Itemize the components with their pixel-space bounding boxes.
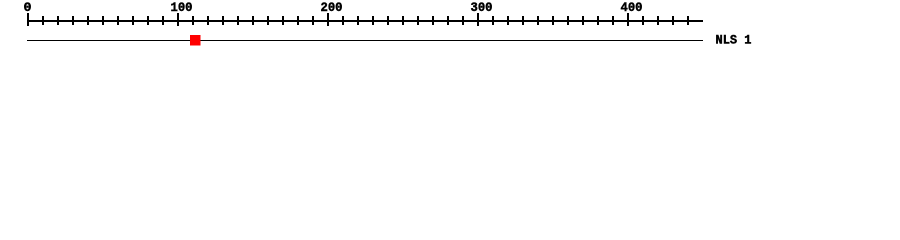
ruler minor tick at 60 (117, 16, 119, 25)
ruler minor tick at 130 (222, 16, 224, 25)
ruler major tick at 100 (177, 13, 179, 26)
ruler minor tick at 170 (282, 16, 284, 25)
ruler minor tick at 270 (432, 16, 434, 25)
ruler minor tick at 370 (582, 16, 584, 25)
ruler minor tick at 430 (672, 16, 674, 25)
ruler minor tick at 290 (462, 16, 464, 25)
svg-text:200: 200 (321, 0, 343, 15)
ruler minor tick at 160 (267, 16, 269, 25)
svg-text:NLS 1: NLS 1 (716, 32, 752, 47)
ruler minor tick at 310 (492, 16, 494, 25)
svg-text:0: 0 (24, 0, 32, 15)
ruler minor tick at 90 (162, 16, 164, 25)
ruler minor tick at 240 (387, 16, 389, 25)
ruler major tick at 200 (327, 13, 329, 26)
ruler minor tick at 350 (552, 16, 554, 25)
ruler minor tick at 20 (57, 16, 59, 25)
ruler axis line (27, 20, 703, 22)
ruler minor tick at 230 (372, 16, 374, 25)
feature track line (27, 40, 703, 41)
ruler minor tick at 30 (72, 16, 74, 25)
ruler minor tick at 150 (252, 16, 254, 25)
ruler minor tick at 420 (657, 16, 659, 25)
ruler minor tick at 360 (567, 16, 569, 25)
ruler minor tick at 410 (642, 16, 644, 25)
ruler minor tick at 210 (342, 16, 344, 25)
ruler minor tick at 390 (612, 16, 614, 25)
ruler minor tick at 340 (537, 16, 539, 25)
ruler minor tick at 40 (87, 16, 89, 25)
ruler minor tick at 280 (447, 16, 449, 25)
ruler minor tick at 70 (132, 16, 134, 25)
ruler minor tick at 220 (357, 16, 359, 25)
ruler minor tick at 10 (42, 16, 44, 25)
ruler minor tick at 260 (417, 16, 419, 25)
ruler minor tick at 140 (237, 16, 239, 25)
ruler major tick at 300 (477, 13, 479, 26)
ruler minor tick at 110 (192, 16, 194, 25)
ruler minor tick at 80 (147, 16, 149, 25)
ruler minor tick at 50 (102, 16, 104, 25)
ruler major tick at 400 (627, 13, 629, 26)
svg-text:300: 300 (471, 0, 493, 15)
svg-text:100: 100 (171, 0, 193, 15)
ruler minor tick at 320 (507, 16, 509, 25)
background (0, 0, 900, 58)
ruler minor tick at 440 (687, 16, 689, 25)
svg-text:400: 400 (621, 0, 643, 15)
ruler minor tick at 190 (312, 16, 314, 25)
ruler minor tick at 120 (207, 16, 209, 25)
ruler minor tick at 250 (402, 16, 404, 25)
feature marker NLS 1 (red square) (190, 35, 201, 46)
ruler minor tick at 330 (522, 16, 524, 25)
ruler minor tick at 180 (297, 16, 299, 25)
ruler minor tick at 380 (597, 16, 599, 25)
ruler major tick at 0 (27, 13, 29, 26)
